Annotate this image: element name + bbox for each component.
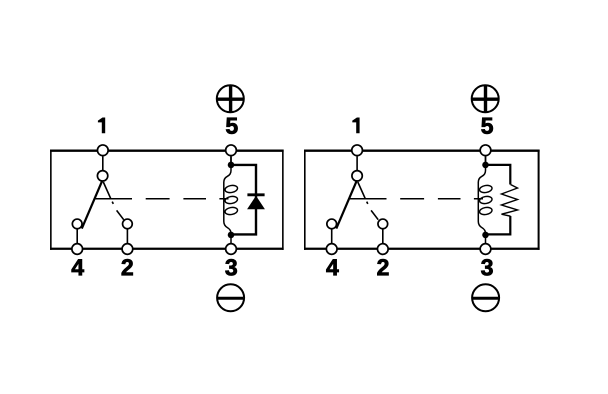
wire terminal1 to pivot	[102, 157, 104, 171]
switch lever (common contact)	[82, 181, 102, 229]
junction dot top left coil	[228, 162, 235, 169]
mechanical link dashed line (right)	[350, 198, 483, 200]
switch lever (right)	[336, 181, 356, 229]
wire contact2 stub (right)	[382, 229, 384, 243]
pin label 1 right	[352, 118, 359, 134]
diode D1 cathode bar	[247, 193, 264, 196]
terminal 5 circle right	[480, 145, 491, 156]
NC contact circle above 4 right	[327, 219, 337, 229]
terminal 4 circle	[72, 244, 83, 255]
NO contact circle above 2 right	[378, 219, 388, 229]
coil L2 loop1	[479, 184, 493, 193]
coil L2 loop2	[479, 195, 493, 204]
relay box K1	[50, 150, 284, 250]
pin label 3 left	[225, 259, 236, 275]
battery minus symbol right	[472, 284, 499, 311]
resistor branch wire	[486, 165, 511, 185]
pin label 2 left	[122, 259, 133, 275]
terminal 3 circle	[226, 244, 237, 255]
wire terminal5 to coil top	[230, 157, 232, 169]
diode D1 triangle	[248, 197, 264, 209]
dashed lever to NO contact 2	[103, 182, 123, 220]
terminal 2 circle	[122, 244, 133, 255]
wire contact4 stub (right)	[331, 229, 333, 243]
wire terminal5 to coil top (right)	[485, 157, 487, 169]
pin label 4 right	[326, 259, 338, 275]
NO contact circle above 2	[123, 219, 133, 229]
coil L2 loop3	[479, 206, 493, 215]
wire contact4 stub	[76, 229, 78, 243]
junction dot bottom left coil	[228, 232, 235, 239]
terminal 4 circle right	[326, 244, 337, 255]
resistor branch wire bottom	[486, 216, 511, 234]
coil L1 loop2	[224, 195, 238, 204]
NC contact circle above 4	[72, 219, 82, 229]
terminal 5 circle	[226, 145, 237, 156]
relay box K2	[304, 150, 540, 250]
junction dot bottom right coil	[482, 232, 489, 239]
pin label 5 left	[226, 118, 237, 134]
battery plus symbol left	[217, 85, 244, 112]
pivot circle right	[352, 171, 362, 181]
coil L1 loop1	[224, 184, 238, 193]
terminal 2 circle right	[377, 244, 388, 255]
pin label 5 right	[481, 118, 492, 134]
battery plus symbol right	[472, 85, 499, 112]
pivot circle	[97, 171, 107, 181]
resistor R1 zigzag	[502, 185, 518, 217]
battery minus symbol left	[217, 284, 244, 311]
pin label 2 right	[377, 259, 388, 275]
coil L1 loop3	[224, 206, 238, 215]
coil L2 spine	[478, 165, 485, 243]
dashed lever to NO contact 2 (right)	[358, 182, 378, 220]
pin label 3 right	[481, 259, 492, 275]
wire contact2 stub	[126, 229, 128, 243]
coil L1 spine	[224, 165, 231, 243]
diode branch wire	[231, 165, 256, 235]
pin label 4 left	[72, 259, 84, 275]
wire terminal1 to pivot (right)	[356, 157, 358, 171]
pin label 1 left	[98, 118, 105, 134]
terminal 3 circle right	[480, 244, 491, 255]
junction dot top right coil	[482, 162, 489, 169]
terminal 1 circle	[97, 145, 108, 156]
mechanical link dashed line	[96, 198, 229, 200]
terminal 1 circle right	[352, 145, 363, 156]
